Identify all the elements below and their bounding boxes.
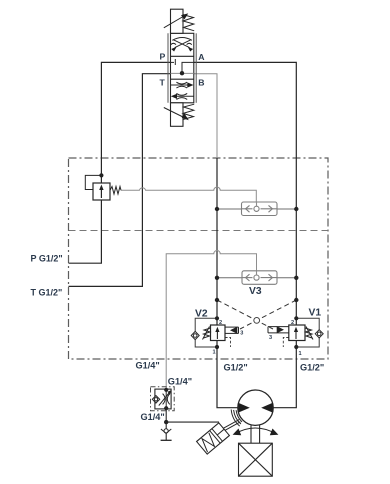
LS line (gray, with hops) [121,187,256,202]
svg-text:3: 3 [240,331,243,337]
flow control valve dashed enclosure [151,387,175,411]
svg-text:P: P [160,52,166,62]
V1 body [289,325,305,341]
flow control valve internals [159,389,171,409]
flow control valve body [155,389,171,409]
motor shaft [251,425,260,443]
svg-text:G1/4": G1/4" [141,412,165,422]
svg-text:2: 2 [219,320,222,326]
drain line [165,408,167,440]
top pilot actuator [171,9,184,33]
wire B riser [217,158,238,408]
pilot cross junction dots [215,298,219,302]
pressure compensator body [93,183,110,200]
svg-text:T G1/2": T G1/2" [31,288,63,298]
svg-text:V3: V3 [249,286,262,297]
V1 pilot port 3 [268,327,289,333]
svg-text:G1/2": G1/2" [300,363,324,373]
manifold section divider [69,230,329,232]
svg-text:B: B [198,78,204,88]
svg-text:G1/4": G1/4" [168,377,192,387]
V2 internal pilot (dashed) [225,338,231,348]
brake cylinder rod [224,420,241,431]
flow control junction dots [164,388,168,392]
pilot cross line to V1 (dashed) [217,300,273,329]
node junction dot [164,420,168,424]
valve center position [171,59,194,73]
V1 spring [305,327,313,340]
V2 anti-cavitation check [191,331,199,339]
pressure compensator arrow [100,188,102,198]
directional valve side rails [168,33,196,103]
motor flow triangles [239,403,250,413]
V2 junction dots [215,316,219,320]
pressure compensator pilot line [85,175,101,189]
svg-text:V2: V2 [195,309,208,320]
tank symbol [161,439,172,441]
V1 arrow [295,330,297,340]
directional valve body [171,33,194,103]
hydraulic motor [238,390,273,425]
svg-text:G1/2": G1/2" [224,363,248,373]
brake cylinder [197,423,230,454]
load box [239,443,273,476]
wire A line [194,62,296,407]
V2 arrow [216,330,218,340]
rotation direction arc [236,428,276,434]
V2 pilot port 3 [225,327,239,333]
shuttle valve V3 connections [217,277,296,279]
V1 junction dots [294,316,298,320]
valve position 1 (crossed arrows) [171,37,192,47]
pressure compensator spring [110,187,121,195]
flow control bypass check [152,396,159,403]
manifold boundary [69,158,329,359]
top pilot arrow [164,16,184,28]
top pilot spring [183,15,195,31]
V1 anti-cavitation check [315,330,323,338]
V3 output line (gray, with hop) [166,251,256,390]
pilot crossing circle [254,318,260,324]
wire B line (gray upper part) [194,74,217,158]
shuttle valve 1 junction dots [215,207,219,211]
brake shoe arcs [231,410,242,427]
svg-text:3: 3 [269,335,272,341]
svg-text:V1: V1 [309,308,322,319]
svg-text:1: 1 [213,350,216,356]
wire P line [69,62,171,263]
brake supply line [166,421,219,423]
bottom pilot spring [183,104,195,119]
wire T line [69,74,171,287]
V2 body [211,325,226,341]
bottom pilot arrow [164,108,184,118]
pressure compensator pilot junction [99,173,103,177]
shuttle valve 1 body [242,202,278,216]
svg-text:2: 2 [291,320,294,326]
pilot cross line to V2 (dashed) [240,300,296,329]
svg-text:G1/4": G1/4" [136,361,160,371]
bottom pilot actuator [171,103,184,127]
valve position 3 (throttled paths) [171,82,194,99]
svg-text:A: A [198,52,205,62]
shuttle valve V3 body [242,271,277,285]
svg-text:P G1/2": P G1/2" [31,254,63,264]
V2 spring [203,327,211,340]
V1 internal pilot (dashed) [283,338,289,348]
shuttle valve 1 connections [217,208,296,210]
svg-text:T: T [160,78,166,88]
shuttle valve V3 junction dots [215,276,219,280]
drain check valve [161,429,171,434]
V1 bypass loop [296,318,319,347]
V2 bypass loop [195,318,217,347]
svg-text:1: 1 [299,351,302,357]
